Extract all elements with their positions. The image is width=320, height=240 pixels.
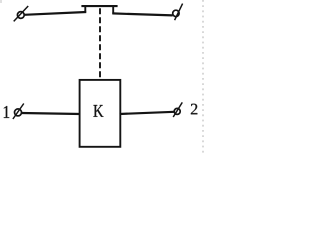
terminal 1 (bottom-left) — [13, 104, 24, 120]
terminal (top-right) — [173, 4, 183, 21]
terminal (top-left) — [14, 6, 29, 21]
wire: coil K to terminal 2 — [120, 112, 175, 114]
terminal 2 (bottom-right) — [173, 102, 182, 117]
wire: top-left terminal to contact — [24, 12, 86, 15]
relay coil K (box) — [80, 80, 121, 147]
wire: terminal 1 to coil K — [22, 113, 81, 114]
pin label 2 — [191, 104, 197, 115]
wire: contact to top-right terminal — [112, 13, 172, 15]
pin label 1 — [4, 106, 9, 118]
relay contact K (bridging contact bar with two leads) — [81, 5, 117, 14]
mechanical linkage (dashed) between contact and coil K — [99, 8, 101, 79]
label K — [93, 105, 103, 117]
